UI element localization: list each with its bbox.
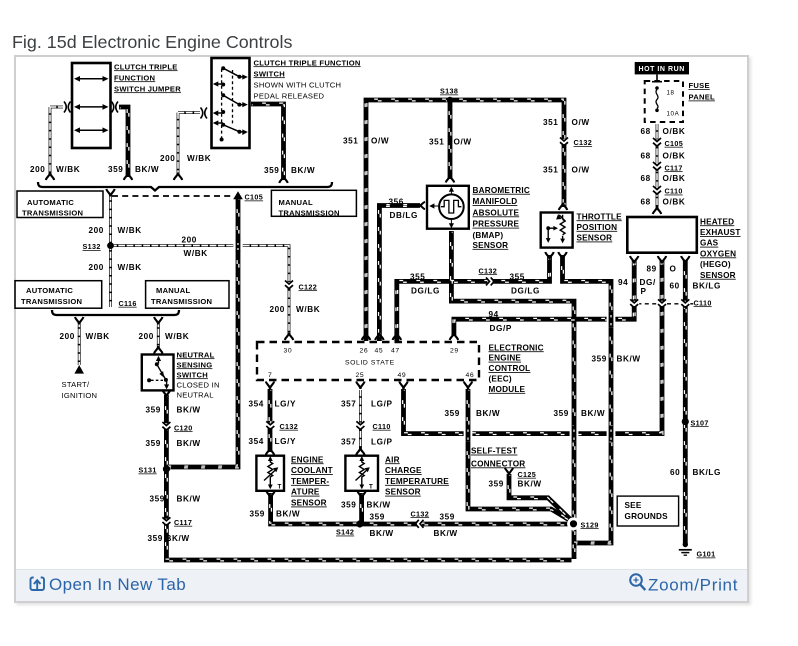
svg-text:94: 94 — [618, 278, 628, 287]
svg-text:TRANSMISSION: TRANSMISSION — [21, 297, 82, 306]
svg-text:LG/P: LG/P — [371, 399, 393, 408]
svg-text:SENSOR: SENSOR — [577, 234, 613, 243]
svg-text:O/BK: O/BK — [663, 127, 686, 136]
svg-text:94: 94 — [489, 310, 499, 319]
svg-text:TEMPER-: TEMPER- — [291, 477, 329, 486]
svg-text:354: 354 — [249, 437, 264, 446]
svg-text:C110: C110 — [373, 422, 391, 431]
svg-text:ENGINE: ENGINE — [291, 455, 324, 464]
svg-text:BK/W: BK/W — [135, 165, 159, 174]
svg-text:COOLANT: COOLANT — [291, 466, 333, 475]
svg-text:7: 7 — [268, 372, 272, 379]
svg-text:CHARGE: CHARGE — [385, 466, 422, 475]
svg-text:18: 18 — [667, 90, 675, 97]
svg-text:200: 200 — [160, 154, 175, 163]
svg-text:W/BK: W/BK — [56, 165, 80, 174]
svg-text:47: 47 — [391, 347, 400, 354]
svg-text:200: 200 — [89, 263, 104, 272]
svg-text:EXHAUST: EXHAUST — [700, 228, 741, 237]
svg-text:W/BK: W/BK — [118, 226, 142, 235]
svg-text:49: 49 — [398, 372, 407, 379]
svg-text:ELECTRONIC: ELECTRONIC — [489, 343, 544, 352]
svg-text:FUSE: FUSE — [689, 81, 710, 90]
svg-text:BAROMETRIC: BAROMETRIC — [473, 186, 531, 195]
svg-text:25: 25 — [356, 372, 365, 379]
svg-text:359: 359 — [440, 512, 455, 521]
svg-text:SENSING: SENSING — [177, 360, 213, 369]
svg-text:OXYGEN: OXYGEN — [700, 249, 736, 258]
svg-text:200: 200 — [270, 305, 285, 314]
svg-text:10A: 10A — [667, 111, 680, 118]
svg-text:354: 354 — [249, 399, 264, 408]
svg-text:CONTROL: CONTROL — [489, 364, 531, 373]
svg-text:C132: C132 — [574, 138, 593, 147]
svg-text:O/W: O/W — [572, 118, 590, 127]
svg-text:357: 357 — [341, 399, 356, 408]
svg-text:SEE: SEE — [625, 501, 642, 510]
svg-text:(BMAP): (BMAP) — [473, 231, 504, 240]
svg-text:LG/P: LG/P — [371, 437, 393, 446]
svg-text:O/BK: O/BK — [663, 174, 686, 183]
svg-text:C117: C117 — [174, 518, 192, 527]
svg-text:BK/LG: BK/LG — [693, 281, 721, 290]
svg-text:S131: S131 — [139, 466, 157, 475]
svg-text:46: 46 — [466, 372, 475, 379]
svg-text:359: 359 — [489, 479, 504, 488]
svg-text:26: 26 — [360, 347, 369, 354]
svg-text:SENSOR: SENSOR — [385, 488, 421, 497]
svg-text:SWITCH: SWITCH — [254, 69, 285, 78]
svg-text:359: 359 — [341, 501, 356, 510]
svg-text:SWITCH JUMPER: SWITCH JUMPER — [114, 84, 181, 93]
svg-text:60: 60 — [670, 281, 680, 290]
svg-text:O/BK: O/BK — [663, 198, 686, 207]
svg-text:NEUTRAL: NEUTRAL — [177, 390, 214, 399]
svg-text:359: 359 — [445, 409, 460, 418]
svg-text:C132: C132 — [280, 422, 299, 431]
svg-text:O/W: O/W — [371, 137, 389, 146]
svg-text:S132: S132 — [83, 242, 101, 251]
svg-text:NEUTRAL: NEUTRAL — [177, 350, 215, 359]
svg-text:SENSOR: SENSOR — [473, 241, 509, 250]
svg-text:351: 351 — [343, 137, 358, 146]
svg-text:DB/LG: DB/LG — [390, 211, 418, 220]
svg-text:C110: C110 — [694, 298, 712, 307]
svg-text:HOT IN RUN: HOT IN RUN — [639, 66, 685, 73]
svg-text:AUTOMATIC: AUTOMATIC — [26, 286, 73, 295]
svg-text:359: 359 — [108, 165, 123, 174]
svg-text:89: 89 — [647, 265, 657, 274]
svg-text:351: 351 — [429, 138, 444, 147]
svg-text:G101: G101 — [697, 550, 716, 559]
svg-text:60: 60 — [670, 468, 680, 477]
svg-text:W/BK: W/BK — [86, 332, 110, 341]
svg-text:68: 68 — [641, 152, 651, 161]
svg-text:SWITCH: SWITCH — [177, 370, 208, 379]
svg-text:359: 359 — [148, 534, 163, 543]
svg-text:W/BK: W/BK — [165, 332, 189, 341]
svg-text:MODULE: MODULE — [489, 385, 526, 394]
svg-text:SENSOR: SENSOR — [700, 271, 736, 280]
svg-text:200: 200 — [139, 332, 154, 341]
svg-text:200: 200 — [30, 165, 45, 174]
svg-text:TEMPERATURE: TEMPERATURE — [385, 477, 449, 486]
svg-text:W/BK: W/BK — [118, 263, 142, 272]
svg-text:BK/W: BK/W — [177, 439, 201, 448]
svg-text:S142: S142 — [336, 528, 354, 537]
svg-text:Open In New Tab: Open In New Tab — [49, 575, 186, 594]
svg-text:C110: C110 — [665, 187, 683, 196]
svg-text:ENGINE: ENGINE — [489, 354, 522, 363]
svg-text:O/W: O/W — [572, 166, 590, 175]
svg-text:C105: C105 — [245, 193, 264, 202]
svg-text:BK/W: BK/W — [476, 409, 500, 418]
svg-text:BK/W: BK/W — [291, 166, 315, 175]
svg-text:TRANSMISSION: TRANSMISSION — [279, 209, 340, 218]
svg-text:359: 359 — [264, 166, 279, 175]
svg-text:200: 200 — [60, 332, 75, 341]
svg-text:ABSOLUTE: ABSOLUTE — [473, 208, 520, 217]
svg-text:W/BK: W/BK — [184, 249, 208, 258]
svg-text:AIR: AIR — [385, 455, 400, 464]
svg-text:CONNECTOR: CONNECTOR — [471, 459, 525, 468]
svg-text:T: T — [278, 484, 282, 491]
svg-text:(HEGO): (HEGO) — [700, 260, 731, 269]
svg-text:68: 68 — [641, 127, 651, 136]
svg-text:200: 200 — [182, 235, 197, 244]
svg-text:DG/LG: DG/LG — [411, 286, 440, 295]
svg-text:DG/LG: DG/LG — [511, 286, 540, 295]
svg-text:200: 200 — [89, 226, 104, 235]
svg-text:C122: C122 — [299, 282, 318, 291]
svg-text:357: 357 — [341, 437, 356, 446]
svg-text:BK/W: BK/W — [166, 534, 190, 543]
svg-text:BK/W: BK/W — [367, 501, 391, 510]
svg-text:PEDAL RELEASED: PEDAL RELEASED — [254, 91, 325, 100]
svg-text:TRANSMISSION: TRANSMISSION — [151, 297, 212, 306]
svg-text:SOLID STATE: SOLID STATE — [345, 359, 395, 366]
svg-text:359: 359 — [554, 409, 569, 418]
svg-text:359: 359 — [370, 512, 385, 521]
svg-text:359: 359 — [250, 509, 265, 518]
svg-text:BK/W: BK/W — [370, 529, 394, 538]
svg-text:START/: START/ — [62, 380, 90, 389]
svg-text:BK/W: BK/W — [177, 494, 201, 503]
svg-text:THROTTLE: THROTTLE — [577, 212, 623, 221]
svg-text:W/BK: W/BK — [187, 154, 211, 163]
svg-text:29: 29 — [450, 347, 459, 354]
svg-text:C117: C117 — [665, 163, 683, 172]
svg-text:MANUAL: MANUAL — [156, 286, 191, 295]
svg-text:355: 355 — [410, 272, 425, 281]
svg-text:SENSOR: SENSOR — [291, 499, 327, 508]
svg-text:POSITION: POSITION — [577, 223, 618, 232]
svg-text:359: 359 — [146, 439, 161, 448]
svg-text:LG/Y: LG/Y — [275, 437, 297, 446]
svg-text:BK/W: BK/W — [177, 405, 201, 414]
svg-text:(EEC): (EEC) — [489, 375, 512, 384]
svg-text:351: 351 — [543, 166, 558, 175]
svg-text:T: T — [369, 484, 373, 491]
svg-text:C132: C132 — [411, 509, 430, 518]
svg-text:O: O — [670, 265, 677, 274]
svg-text:359: 359 — [592, 354, 607, 363]
svg-text:P: P — [641, 287, 647, 296]
svg-text:IGNITION: IGNITION — [62, 391, 98, 400]
svg-text:DG/: DG/ — [640, 278, 656, 287]
svg-text:C116: C116 — [119, 299, 137, 308]
svg-text:S107: S107 — [691, 418, 709, 427]
svg-text:W/BK: W/BK — [296, 305, 320, 314]
svg-text:CLOSED IN: CLOSED IN — [177, 380, 220, 389]
svg-text:GAS: GAS — [700, 239, 719, 248]
svg-text:SHOWN WITH CLUTCH: SHOWN WITH CLUTCH — [254, 80, 342, 89]
svg-text:CLUTCH TRIPLE FUNCTION: CLUTCH TRIPLE FUNCTION — [254, 58, 361, 67]
svg-text:MANUAL: MANUAL — [279, 198, 314, 207]
svg-text:CLUTCH TRIPLE: CLUTCH TRIPLE — [114, 62, 178, 71]
svg-text:TRANSMISSION: TRANSMISSION — [22, 209, 83, 218]
svg-text:359: 359 — [150, 494, 165, 503]
svg-text:DG/P: DG/P — [490, 324, 512, 333]
svg-text:C120: C120 — [174, 423, 193, 432]
svg-text:C105: C105 — [665, 139, 684, 148]
svg-text:LG/Y: LG/Y — [275, 399, 297, 408]
svg-text:359: 359 — [146, 405, 161, 414]
svg-text:MANIFOLD: MANIFOLD — [473, 197, 518, 206]
svg-text:ATURE: ATURE — [291, 488, 320, 497]
svg-text:O/W: O/W — [454, 138, 472, 147]
svg-text:PRESSURE: PRESSURE — [473, 220, 520, 229]
svg-text:S129: S129 — [581, 520, 599, 529]
svg-text:FUNCTION: FUNCTION — [114, 73, 155, 82]
svg-text:GROUNDS: GROUNDS — [625, 512, 669, 521]
svg-text:356: 356 — [389, 197, 404, 206]
svg-text:S138: S138 — [440, 87, 458, 96]
svg-text:BK/W: BK/W — [518, 479, 542, 488]
svg-text:BK/W: BK/W — [434, 529, 458, 538]
svg-text:BK/W: BK/W — [581, 409, 605, 418]
svg-text:45: 45 — [375, 347, 384, 354]
svg-text:355: 355 — [510, 272, 525, 281]
svg-text:HEATED: HEATED — [700, 217, 734, 226]
svg-text:BK/LG: BK/LG — [693, 468, 721, 477]
svg-text:30: 30 — [284, 347, 293, 354]
svg-text:Zoom/Print: Zoom/Print — [648, 576, 738, 595]
svg-text:C132: C132 — [479, 266, 498, 275]
svg-text:PANEL: PANEL — [689, 93, 716, 102]
svg-text:SELF-TEST: SELF-TEST — [471, 447, 517, 456]
svg-text:O/BK: O/BK — [663, 152, 686, 161]
svg-text:68: 68 — [641, 198, 651, 207]
svg-text:BK/W: BK/W — [617, 354, 641, 363]
svg-text:AUTOMATIC: AUTOMATIC — [27, 198, 74, 207]
svg-text:68: 68 — [641, 174, 651, 183]
svg-text:C125: C125 — [518, 470, 537, 479]
svg-text:BK/W: BK/W — [276, 509, 300, 518]
svg-text:351: 351 — [543, 118, 558, 127]
